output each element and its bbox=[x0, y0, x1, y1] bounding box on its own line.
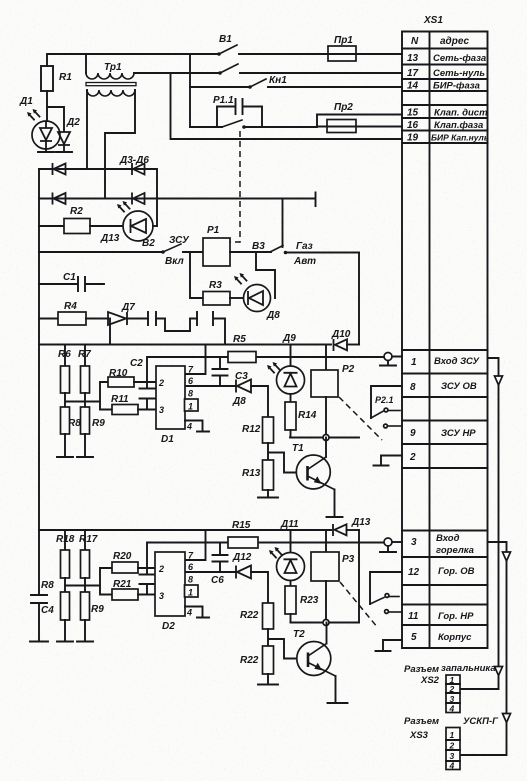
wire: pin6 line channel 2 bbox=[185, 571, 236, 573]
svg-text:R15: R15 bbox=[232, 520, 251, 531]
connector table XS1 bbox=[402, 15, 489, 648]
capacitor C2 bbox=[130, 358, 155, 410]
svg-text:Р2: Р2 bbox=[342, 364, 355, 375]
wire: neutral branch to row 19 bbox=[171, 73, 403, 139]
wire: R22 to R22 with base tap bbox=[268, 629, 298, 659]
svg-text:3: 3 bbox=[450, 751, 455, 761]
svg-text:R5: R5 bbox=[233, 334, 246, 345]
svg-text:14: 14 bbox=[407, 81, 419, 92]
resistor R22 upper bbox=[240, 603, 274, 629]
svg-text:1: 1 bbox=[188, 402, 193, 412]
svg-text:Д13: Д13 bbox=[100, 233, 120, 244]
svg-text:Р1: Р1 bbox=[207, 225, 220, 236]
svg-text:R14: R14 bbox=[298, 410, 317, 421]
wire: R5 oscillator line bbox=[147, 357, 326, 382]
svg-text:Гор. НР: Гор. НР bbox=[438, 611, 474, 622]
contact P3.1 bbox=[370, 572, 402, 613]
resistor R14 bbox=[285, 394, 317, 438]
svg-text:R22: R22 bbox=[240, 655, 259, 666]
wire: R1 to LED node bbox=[47, 91, 64, 129]
svg-text:3: 3 bbox=[159, 405, 164, 415]
capacitor (after D7) bbox=[148, 312, 165, 325]
IC D1 bbox=[156, 365, 198, 446]
LED D8 bbox=[234, 273, 280, 321]
svg-text:11: 11 bbox=[408, 611, 419, 622]
wire: row1 to XS2 (high voltage run) bbox=[460, 358, 499, 689]
svg-text:XS1: XS1 bbox=[423, 15, 443, 26]
svg-text:В2: В2 bbox=[142, 238, 155, 249]
LED D1 bbox=[19, 96, 60, 149]
svg-text:УСКП-Г: УСКП-Г bbox=[463, 716, 499, 727]
wire: pin6 line bbox=[185, 385, 236, 387]
resistors R8 R9 bbox=[57, 407, 105, 457]
wire: branch to R3/D8 indicator bbox=[256, 253, 275, 299]
svg-text:адрес: адрес bbox=[440, 36, 470, 47]
switch B2 (ZSU on) bbox=[39, 235, 203, 267]
svg-text:N: N bbox=[411, 36, 419, 47]
svg-text:2: 2 bbox=[409, 452, 416, 463]
ground pin 4 of D1 bbox=[185, 421, 209, 432]
svg-text:8: 8 bbox=[188, 575, 193, 585]
resistor R4 bbox=[39, 301, 108, 325]
svg-text:Д13: Д13 bbox=[351, 517, 371, 528]
svg-text:R1: R1 bbox=[59, 72, 72, 83]
svg-text:13: 13 bbox=[407, 53, 419, 64]
svg-text:Авт: Авт bbox=[293, 256, 316, 267]
svg-text:5: 5 bbox=[411, 632, 417, 643]
wire: P1 to B3 bbox=[230, 251, 271, 253]
svg-text:Д11: Д11 bbox=[280, 519, 299, 530]
svg-text:Д9: Д9 bbox=[282, 333, 296, 344]
svg-text:Д1: Д1 bbox=[19, 96, 33, 107]
svg-text:Д2: Д2 bbox=[66, 117, 80, 128]
svg-text:2: 2 bbox=[449, 741, 455, 751]
svg-text:Д7: Д7 bbox=[121, 302, 135, 313]
capacitor (osc line to pin6) bbox=[213, 357, 228, 386]
svg-text:R4: R4 bbox=[64, 301, 77, 312]
svg-text:1: 1 bbox=[188, 588, 193, 598]
wire: collector bus channel 1 bbox=[290, 437, 359, 439]
dashed link P1.1 to relay P1 bbox=[230, 131, 240, 242]
resistor R5 bbox=[228, 334, 256, 363]
svg-text:R20: R20 bbox=[113, 551, 132, 562]
svg-text:R13: R13 bbox=[242, 468, 261, 479]
svg-text:Кн1: Кн1 bbox=[269, 75, 287, 86]
LED D11 bbox=[269, 519, 305, 581]
resistors R18 R17 bbox=[56, 530, 98, 578]
connector XS2 bbox=[404, 663, 496, 714]
transistor T1 bbox=[292, 438, 343, 518]
diode D10 bbox=[331, 329, 359, 351]
svg-text:запальника: запальника bbox=[441, 663, 496, 674]
wire: transformer primary right to switch B1 pole2 bbox=[134, 72, 220, 74]
resistor R11 bbox=[111, 394, 156, 415]
resistor R22 lower bbox=[240, 646, 274, 674]
fuse Pr2 bbox=[317, 102, 402, 133]
svg-text:R23: R23 bbox=[300, 595, 319, 606]
svg-text:Разъем: Разъем bbox=[404, 664, 439, 675]
svg-text:D1: D1 bbox=[161, 434, 174, 445]
svg-text:Д12: Д12 bbox=[232, 552, 252, 563]
svg-text:В1: В1 bbox=[219, 34, 232, 45]
svg-text:горелка: горелка bbox=[436, 545, 474, 556]
svg-text:R2: R2 bbox=[70, 206, 83, 217]
node: collector junction bbox=[323, 435, 329, 441]
resistor R20 bbox=[112, 551, 155, 573]
svg-text:БИР-фаза: БИР-фаза bbox=[433, 81, 480, 92]
svg-text:2: 2 bbox=[158, 378, 164, 388]
svg-text:4: 4 bbox=[449, 704, 455, 714]
svg-text:9: 9 bbox=[410, 428, 416, 439]
terminal: input burner bbox=[380, 538, 402, 552]
svg-text:Вход: Вход bbox=[436, 533, 460, 544]
svg-text:Р2.1: Р2.1 bbox=[375, 395, 394, 405]
svg-text:XS2: XS2 bbox=[420, 675, 440, 686]
transformer Tp1 bbox=[86, 54, 136, 96]
dashed link P2 to contact P2.1 bbox=[339, 397, 382, 440]
svg-text:Гор. ОВ: Гор. ОВ bbox=[438, 566, 475, 577]
resistor R2 bbox=[39, 206, 123, 234]
svg-text:R9: R9 bbox=[92, 418, 105, 429]
switch Kn1 (button) bbox=[190, 75, 402, 89]
svg-text:1: 1 bbox=[450, 730, 455, 740]
svg-text:XS3: XS3 bbox=[409, 730, 429, 741]
svg-text:8: 8 bbox=[410, 382, 416, 393]
svg-text:8: 8 bbox=[188, 389, 193, 399]
svg-text:C1: C1 bbox=[63, 272, 76, 283]
wire: right rail channel 2 bbox=[358, 530, 360, 623]
svg-text:1: 1 bbox=[411, 357, 417, 368]
wire: jog in damper line bbox=[165, 319, 197, 332]
svg-text:C2: C2 bbox=[130, 358, 143, 369]
svg-text:2: 2 bbox=[158, 564, 164, 574]
svg-text:15: 15 bbox=[407, 108, 419, 119]
resistor R15 bbox=[228, 520, 258, 548]
wire: vertical from phase line feeding Kn1 and P1.1 lines bbox=[189, 54, 191, 127]
resistors R6 R7 bbox=[58, 345, 91, 394]
ground under D2 bbox=[56, 151, 72, 153]
resistor R13 bbox=[242, 460, 274, 490]
wire: left rail bbox=[38, 169, 40, 595]
wire: branch to row 15 bbox=[317, 115, 402, 128]
wire: mains phase line (top) bbox=[47, 54, 219, 66]
svg-text:Тр1: Тр1 bbox=[104, 62, 122, 73]
svg-text:Разъем: Разъем bbox=[404, 716, 439, 727]
relay P2 bbox=[311, 345, 355, 438]
svg-text:Сеть-нуль: Сеть-нуль bbox=[433, 68, 485, 79]
wires: divider node channel 1 bbox=[65, 382, 112, 410]
svg-text:Сеть-фаза: Сеть-фаза bbox=[433, 53, 486, 64]
svg-text:Вход ЗСУ: Вход ЗСУ bbox=[434, 356, 480, 367]
svg-text:C3: C3 bbox=[235, 371, 248, 382]
svg-text:Д8: Д8 bbox=[232, 396, 246, 407]
LED D9 bbox=[267, 333, 305, 394]
ground pin 4 of D2 bbox=[185, 607, 209, 618]
svg-text:Клап.фаза: Клап.фаза bbox=[434, 120, 483, 131]
arrow on wire (upper) bbox=[495, 376, 503, 385]
resistor R23 bbox=[285, 581, 319, 623]
fuse Pr1 bbox=[328, 35, 402, 61]
svg-text:БИР Кап.нуль: БИР Кап.нуль bbox=[431, 133, 489, 143]
svg-text:4: 4 bbox=[186, 608, 192, 618]
svg-text:С6: С6 bbox=[211, 575, 224, 586]
diode D12 bbox=[232, 552, 268, 603]
diode D2 bbox=[58, 117, 80, 152]
svg-text:Т1: Т1 bbox=[292, 443, 304, 454]
svg-text:Р1.1: Р1.1 bbox=[213, 95, 234, 106]
svg-text:Корпус: Корпус bbox=[438, 632, 472, 643]
svg-text:Клап. дист: Клап. дист bbox=[434, 108, 488, 119]
svg-text:3: 3 bbox=[159, 591, 164, 601]
wire: secondary right lead to bridge bbox=[105, 90, 135, 199]
svg-text:R12: R12 bbox=[242, 424, 261, 435]
svg-text:Вкл: Вкл bbox=[165, 256, 185, 267]
svg-text:R8: R8 bbox=[41, 580, 54, 591]
wire: row3 to XS3 run bbox=[460, 542, 507, 755]
svg-text:2: 2 bbox=[449, 684, 455, 694]
wire: main DC rail channel 1 bbox=[39, 344, 331, 346]
switch B3 gas/auto bbox=[252, 199, 359, 268]
svg-text:16: 16 bbox=[407, 120, 419, 131]
svg-text:3: 3 bbox=[411, 537, 417, 548]
switch B1 pole 2 bbox=[218, 64, 402, 75]
resistor R10 bbox=[108, 368, 156, 387]
connector XS3 bbox=[404, 716, 499, 771]
ground under R13 bbox=[258, 490, 278, 498]
svg-text:3: 3 bbox=[450, 694, 455, 704]
diode D7 bbox=[108, 302, 148, 325]
capacitor C2 (channel 2) bbox=[140, 568, 155, 595]
capacitor C6 bbox=[211, 543, 228, 587]
ground bracket row 2 bbox=[374, 456, 403, 466]
switch B1 pole 1 bbox=[217, 34, 328, 56]
bridge rectifier D3-D6 bbox=[39, 155, 316, 226]
resistor R1 bbox=[41, 66, 72, 91]
resistor R3 bbox=[190, 253, 244, 306]
wire: collector bus channel 2 bbox=[291, 622, 360, 624]
svg-text:Р3: Р3 bbox=[342, 554, 355, 565]
relay P1 bbox=[203, 225, 230, 266]
node: collector junction 2 bbox=[323, 620, 329, 626]
wire: right rail upper (gas valve feed) bbox=[358, 253, 360, 345]
transistor T2 bbox=[293, 623, 348, 704]
wire: secondary left lead to bridge bbox=[86, 90, 88, 169]
svg-text:ЗСУ НР: ЗСУ НР bbox=[441, 428, 476, 439]
capacitor C1 bbox=[39, 272, 104, 291]
svg-text:Т2: Т2 bbox=[293, 629, 305, 640]
dashed link P3 to contact P3.1 bbox=[340, 582, 378, 628]
resistor R21 bbox=[112, 579, 155, 600]
svg-text:17: 17 bbox=[407, 68, 419, 79]
svg-text:В3: В3 bbox=[252, 241, 265, 252]
resistors R8 R9 (channel 2) bbox=[41, 580, 104, 642]
svg-text:4: 4 bbox=[449, 761, 455, 771]
svg-text:R17: R17 bbox=[79, 534, 98, 545]
svg-text:Д8: Д8 bbox=[266, 310, 280, 321]
LED D13 indicator bbox=[100, 201, 157, 249]
diode D13 (output) bbox=[333, 517, 371, 536]
contact P1.1 with parallel switch bbox=[190, 95, 317, 129]
capacitor (second, damper line) bbox=[197, 312, 225, 345]
svg-text:D2: D2 bbox=[162, 621, 175, 632]
svg-text:12: 12 bbox=[408, 567, 420, 578]
svg-text:Газ: Газ bbox=[296, 241, 313, 252]
wire: pin7 of D1 to rail bbox=[185, 345, 206, 375]
wire: main DC rail channel 2 bbox=[39, 529, 331, 531]
svg-text:C4: C4 bbox=[41, 605, 54, 616]
svg-text:19: 19 bbox=[407, 133, 419, 144]
resistor R12 bbox=[242, 417, 274, 443]
svg-text:R22: R22 bbox=[240, 610, 259, 621]
svg-text:4: 4 bbox=[186, 422, 192, 432]
arrow on wire (upper) bbox=[503, 552, 511, 561]
svg-text:R11: R11 bbox=[111, 394, 129, 405]
wire: R15 line bbox=[147, 543, 384, 569]
IC D2 bbox=[155, 551, 198, 633]
wire: R12 to R13 with base tap bbox=[268, 443, 297, 473]
contact P2.1 bbox=[371, 386, 402, 428]
wire: D7 anode to rail bbox=[109, 319, 111, 345]
svg-text:Пр1: Пр1 bbox=[334, 35, 353, 46]
arrow on wire (lower) bbox=[503, 714, 511, 723]
arrow on wire (lower) bbox=[495, 667, 503, 676]
capacitor C4 bbox=[30, 595, 54, 642]
ground under D1 bbox=[38, 149, 54, 152]
ground bracket row 5 bbox=[376, 640, 403, 651]
svg-text:R3: R3 bbox=[209, 280, 222, 291]
relay P3 bbox=[311, 530, 355, 623]
svg-text:Пр2: Пр2 bbox=[334, 102, 353, 113]
wires: divider node channel 2 bbox=[65, 568, 112, 595]
terminal: input ZSU bbox=[326, 353, 402, 366]
svg-text:ЗСУ ОВ: ЗСУ ОВ bbox=[441, 381, 477, 392]
diode D8 (C3) bbox=[232, 371, 268, 417]
ground under lower R22 bbox=[258, 674, 278, 685]
wire: pin7 of D2 to rail bbox=[185, 530, 206, 560]
svg-text:R9: R9 bbox=[91, 604, 104, 615]
